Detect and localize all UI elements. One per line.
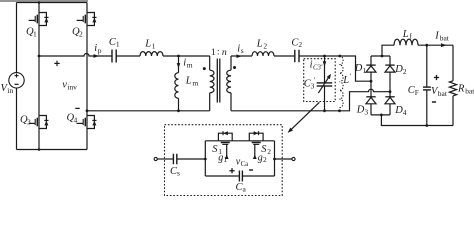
wire C1 to L1 <box>116 55 140 57</box>
svg-text:n: n <box>222 47 227 58</box>
label C3p <box>304 76 316 91</box>
svg-text:inv: inv <box>67 83 77 92</box>
wire terminal to Cs <box>157 158 173 160</box>
transistor Q2 <box>72 13 97 39</box>
node rectifier top tap <box>381 55 384 58</box>
wire right bridge leg <box>86 3 88 150</box>
capacitor CF <box>423 45 431 125</box>
wire rectifier right leg <box>389 56 391 115</box>
wire bridge output top (with hopover) <box>39 54 112 57</box>
diode D1 <box>366 65 376 72</box>
label Ca <box>236 182 247 194</box>
leader arrow to detail box <box>288 102 320 133</box>
svg-text:m: m <box>192 78 198 87</box>
node bridge left mid <box>38 55 41 58</box>
current label i_C3p <box>310 60 327 72</box>
wire Lf to battery top <box>418 44 453 46</box>
svg-text:L: L <box>185 75 192 86</box>
svg-text:m: m <box>187 60 193 69</box>
transistor S2 <box>249 131 263 159</box>
node Lp bottom <box>338 109 341 112</box>
node rectifier bottom tap <box>380 114 383 117</box>
label D4 <box>394 105 407 117</box>
voltage label V_bat + - <box>431 75 448 102</box>
terminal left <box>154 157 157 160</box>
svg-text:L: L <box>342 75 349 86</box>
node CF top <box>425 44 428 47</box>
svg-text:F: F <box>415 88 419 97</box>
node bridge bottom-left <box>38 148 41 151</box>
capacitor Cs <box>173 154 176 165</box>
label 1 : n <box>211 47 227 58</box>
capacitor C1 <box>112 50 116 63</box>
label Cs <box>170 166 180 178</box>
transistor S1 <box>218 131 232 159</box>
transistor Q4 <box>67 113 97 129</box>
node cell right <box>273 158 276 161</box>
svg-text:i: i <box>183 58 186 69</box>
node bridge top-left <box>38 1 41 4</box>
label D3 <box>356 105 369 117</box>
wire rectifier to Lf <box>382 45 394 56</box>
current label i_m <box>177 58 193 70</box>
node C3p top <box>323 55 326 58</box>
node AC1 on left leg <box>370 80 373 83</box>
current label i_p <box>94 43 102 58</box>
label S2 <box>261 144 271 156</box>
transistor Q1 <box>26 13 49 39</box>
resistor R_bat <box>449 45 456 125</box>
node AC2 on right leg <box>389 90 392 93</box>
wire rectifier left leg <box>370 56 372 115</box>
label C1 <box>109 37 120 49</box>
wire cell right side <box>274 141 276 176</box>
svg-text:3: 3 <box>364 107 368 116</box>
svg-text:2: 2 <box>263 155 267 164</box>
node Lm bottom <box>177 109 180 112</box>
svg-text::: : <box>217 47 220 57</box>
current label i_s <box>237 43 244 58</box>
svg-text:I: I <box>434 31 439 42</box>
wire V_in upper <box>16 3 18 73</box>
svg-text:1: 1 <box>211 47 216 58</box>
node C3p bottom <box>323 109 326 112</box>
svg-text:p: p <box>98 46 102 55</box>
svg-text:Ca: Ca <box>241 161 249 168</box>
transformer core <box>217 59 220 103</box>
inductor Lp (dotted equivalent) <box>340 56 344 108</box>
transistor Q3 <box>20 115 49 129</box>
node Lp top <box>338 55 341 58</box>
node bridge right mid <box>86 109 89 112</box>
svg-text:2: 2 <box>263 41 267 50</box>
svg-text:i: i <box>94 43 97 54</box>
svg-text:1: 1 <box>362 66 366 75</box>
svg-text:1: 1 <box>33 29 37 38</box>
label Lp <box>342 72 351 87</box>
diode D3 <box>366 97 376 104</box>
svg-text:1: 1 <box>152 41 156 50</box>
svg-text:L: L <box>256 39 263 50</box>
wire cell to right terminal <box>275 158 293 160</box>
svg-text:4: 4 <box>74 116 78 125</box>
transformer primary winding <box>203 56 214 111</box>
node cell left <box>204 158 207 161</box>
label Lm <box>185 75 199 87</box>
inductor L2 <box>252 52 274 56</box>
label g1 <box>218 153 227 165</box>
svg-text:C3′: C3′ <box>313 65 323 72</box>
svg-text:bat: bat <box>438 89 448 98</box>
inductor Lm <box>175 56 179 111</box>
wire rectifier bottom bar <box>371 114 390 116</box>
wire left bridge leg <box>38 3 40 150</box>
wire L2 to C2 <box>274 55 295 57</box>
svg-text:1: 1 <box>116 40 120 49</box>
svg-text:in: in <box>7 86 13 95</box>
label S1 <box>212 144 222 156</box>
dashed detail box <box>165 125 283 196</box>
label CF <box>408 85 419 97</box>
wire cell left side <box>204 141 206 176</box>
label g2 <box>258 153 267 165</box>
capacitor Ca <box>239 171 242 182</box>
label Lf <box>402 29 413 41</box>
svg-text:1: 1 <box>224 155 228 164</box>
dashed box around C3p <box>304 59 336 102</box>
wire output bottom rail <box>381 115 453 126</box>
voltage label v_Ca + - <box>229 157 253 174</box>
svg-text:L: L <box>144 39 151 50</box>
wire L1 to transformer <box>163 55 210 57</box>
svg-text:R: R <box>457 84 465 95</box>
current label I_bat <box>434 31 450 48</box>
svg-text:s: s <box>177 169 180 178</box>
svg-text:4: 4 <box>403 108 407 117</box>
svg-text:3: 3 <box>27 117 31 126</box>
diode D4 <box>385 97 395 104</box>
wire cell bottom right <box>242 175 274 177</box>
label D2 <box>394 64 407 76</box>
svg-text:2: 2 <box>267 147 271 156</box>
wire C2 to rectifier input (upper) <box>299 55 340 57</box>
svg-text:bat: bat <box>440 33 450 42</box>
label D1 <box>354 63 367 75</box>
inductor Lf <box>394 39 418 45</box>
label V_in <box>1 83 14 95</box>
capacitor C2 <box>295 50 299 63</box>
wire top rail <box>17 2 88 4</box>
wire cell bottom left <box>205 175 239 177</box>
svg-text:L: L <box>402 29 409 40</box>
node CF bottom <box>425 124 428 127</box>
wire upper AC input <box>340 56 371 81</box>
label L2 <box>256 39 268 51</box>
wire cell top side <box>205 140 274 142</box>
terminal right <box>292 157 295 160</box>
svg-text:2: 2 <box>403 67 407 76</box>
wire secondary bottom / lower AC input (with hopover) <box>231 89 390 111</box>
inductor L1 <box>140 52 163 56</box>
label L1 <box>144 39 156 51</box>
transformer secondary winding <box>227 56 236 111</box>
label C2 <box>291 37 302 49</box>
wire V_in lower <box>16 88 18 150</box>
capacitor C3p (variable) <box>317 56 333 111</box>
diode D2 <box>385 65 395 72</box>
node Lm top <box>177 55 180 58</box>
wire bottom rail <box>17 149 88 151</box>
wire primary bottom rail <box>87 110 210 112</box>
wire Cs to cell <box>177 158 206 160</box>
svg-text:2: 2 <box>79 30 83 39</box>
svg-text:s: s <box>241 46 244 55</box>
wire secondary top <box>231 55 252 57</box>
label v_inv + - <box>54 61 79 109</box>
label R_bat <box>457 84 474 96</box>
wire rectifier top rail <box>371 55 390 57</box>
voltage source V_in <box>9 73 24 88</box>
svg-text:bat: bat <box>465 86 474 95</box>
svg-text:2: 2 <box>298 40 302 49</box>
